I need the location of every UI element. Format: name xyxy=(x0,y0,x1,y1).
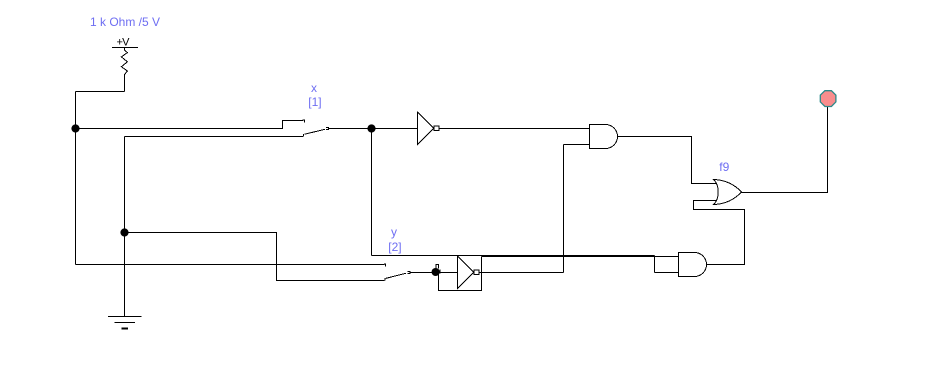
wire: AND2 top input feed xyxy=(655,256,679,258)
wire: AND2 input splitter vertical x=653.5 xyxy=(654,256,656,273)
switch y top throw contact hook xyxy=(384,264,385,267)
switch x arm [1] xyxy=(304,129,325,134)
svg-text:[2]: [2] xyxy=(388,240,401,254)
svg-text:y: y xyxy=(391,225,397,239)
resistor R1 (1 k Ohm pull-up) xyxy=(121,48,127,92)
OR gate f9 xyxy=(714,180,742,205)
svg-text:+V: +V xyxy=(117,37,131,49)
svg-text:f9: f9 xyxy=(719,160,729,174)
wire: AND2 output routing to OR bottom input xyxy=(694,201,745,265)
wire: switch x output to node xyxy=(329,128,372,130)
wire: U2 output vertical up x=563.5 xyxy=(563,145,565,273)
switch y pole contact hook xyxy=(384,278,386,280)
wire: AND1 bottom input feed xyxy=(564,144,590,146)
wire: node to inverter U1 input xyxy=(372,128,418,130)
wire: inverter U2 output y=272.5 xyxy=(479,272,564,274)
switch y arm [2] xyxy=(386,273,407,278)
wire: y signal routed around U2 (down, right, up) xyxy=(439,257,482,291)
wire: ground net vertical x=124.5 xyxy=(124,137,126,317)
node: ground junction xyxy=(120,228,128,236)
wire: left vertical x=75.5 (pull-up net) xyxy=(75,92,77,265)
switch y right contact hook xyxy=(407,271,410,273)
wire: x signal row y=255.5 xyxy=(372,255,655,257)
wire: OR output to probe xyxy=(742,107,828,193)
node: junction pull-up net / switch x top feed xyxy=(71,124,79,132)
switch x right contact hook xyxy=(326,127,329,129)
wire: AND1 output routing to OR top input xyxy=(618,137,718,184)
inverter U1 xyxy=(418,112,439,144)
power +V symbol xyxy=(112,37,138,49)
wire: inverter U1 output to AND1 top input xyxy=(439,128,590,130)
svg-text:[1]: [1] xyxy=(308,95,321,109)
wire: switch x bottom contact feed y=136.5 xyxy=(125,136,303,138)
wire: pull-up net to switch y top contact y=264.5 xyxy=(76,264,385,266)
probe (red indicator) xyxy=(820,91,836,107)
wire: row y=128.5 from junction to switch x top contact step xyxy=(76,121,303,129)
wire: switch y output to node xyxy=(410,272,432,274)
node: switch x output junction xyxy=(367,124,375,132)
node: switch y output junction xyxy=(432,268,440,276)
AND gate 2 xyxy=(679,253,707,277)
switch x top throw contact hook xyxy=(303,120,304,123)
wire: node to inverter U2 input xyxy=(440,272,458,274)
svg-text:x: x xyxy=(311,81,317,95)
AND gate 1 xyxy=(590,125,618,149)
ground xyxy=(108,317,142,329)
switch y unused contact hook above node xyxy=(436,265,439,269)
wire: ground junction to switch y pole routing xyxy=(125,233,385,281)
wire: resistor bottom to left vertical xyxy=(76,91,125,93)
svg-text:1 k Ohm /5 V: 1 k Ohm /5 V xyxy=(90,15,160,29)
wire: AND2 bottom input feed xyxy=(655,272,679,274)
wire: y signal row y=256.5 xyxy=(482,256,655,258)
switch x pole contact hook xyxy=(303,134,305,136)
inverter U2 input pin tick xyxy=(439,270,441,274)
wire: x signal vertical drop x=371.5 xyxy=(371,129,373,256)
inverter U2 xyxy=(458,256,479,288)
